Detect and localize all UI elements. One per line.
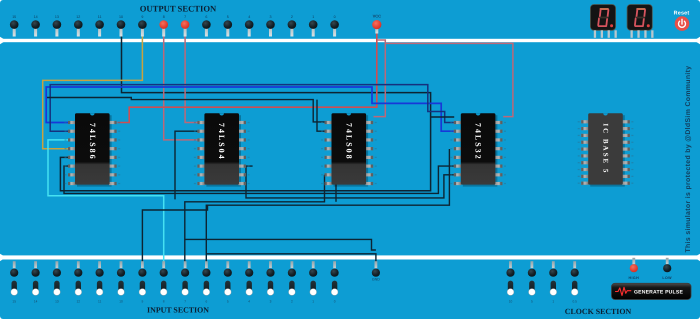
svg-text:CLOCK SECTION: CLOCK SECTION [565,307,632,316]
svg-text:1: 1 [312,300,314,304]
7-segment display DIS2 [627,5,653,38]
svg-text:GENERATE PULSE: GENERATE PULSE [634,290,684,296]
input switch 8 [160,261,168,303]
output LED pin 12 [74,15,83,37]
svg-text:VCC: VCC [373,14,382,19]
wire black bus to IC3 pin1 [47,98,325,122]
input switch 11 [96,261,104,303]
svg-text:3: 3 [270,300,272,304]
svg-text:13: 13 [55,15,59,19]
svg-text:0: 0 [334,15,336,19]
svg-text:OUTPUT SECTION: OUTPUT SECTION [140,4,217,14]
Reset power button [675,16,690,31]
svg-text:12: 12 [76,15,80,19]
wire black mesh to input pin9 [142,205,207,266]
wire pink out-pin8 to IC2 pin3 [164,33,198,140]
svg-text:INPUT SECTION: INPUT SECTION [147,306,209,315]
wire black IC3 bottom hook [335,184,337,202]
svg-text:HIGH: HIGH [629,276,640,280]
input switch 9 [138,261,146,303]
output LED pin 6 [202,15,211,37]
IC U5 IC BASE 5 [578,113,634,186]
wire black hook IC3 pin2 [317,100,325,132]
svg-text:4: 4 [248,15,250,19]
output LED pin 8 [159,15,168,37]
input switch 4 [245,261,253,303]
input switch 1 [309,261,317,303]
clock switch 5 [528,261,536,303]
svg-text:9: 9 [141,15,143,19]
svg-text:7: 7 [184,300,186,304]
output LED pin 15 [10,15,19,37]
svg-text:10: 10 [119,300,123,304]
wire cyan IC1 pin3 to input pin [48,140,164,266]
svg-text:9: 9 [142,300,144,304]
svg-text:LOW: LOW [662,276,672,280]
svg-text:15: 15 [12,300,16,304]
input switch 2 [288,261,296,303]
svg-text:74LS04: 74LS04 [217,123,226,161]
wire yellow out-pin9 to IC1 pin4 [43,33,143,149]
output LED pin 14 [31,15,40,37]
svg-text:14: 14 [34,300,38,304]
input switch 7 [181,261,189,303]
svg-text:6: 6 [206,300,208,304]
GENERATE PULSE button [612,283,692,299]
output LED pin 7 [181,15,190,37]
white separator band (bottom) [0,255,700,259]
svg-text:6: 6 [205,15,207,19]
wire pink VCC branch to IC4 right pin1 [385,43,513,116]
output LED pin 4 [245,15,254,37]
input switch 10 [117,261,125,303]
svg-text:11: 11 [98,15,102,19]
svg-text:10: 10 [119,15,123,19]
wire black gnd bus 1 [185,239,376,250]
input switch 13 [53,261,61,303]
input switch 3 [266,261,274,303]
output LED pin 1 [309,15,318,37]
svg-text:5: 5 [227,15,229,19]
input switch 6 [202,261,210,303]
svg-text:3: 3 [270,15,272,19]
wire black out-pin10 to mesh/IC1 [60,33,430,191]
white separator band (top) [0,39,700,42]
svg-text:4: 4 [248,300,250,304]
svg-text:74LS32: 74LS32 [474,123,483,161]
wire black mesh row2 [64,166,454,193]
svg-text:IC BASE 5: IC BASE 5 [602,123,610,174]
GND pin [372,261,380,281]
svg-text:15: 15 [12,15,16,19]
output LED pin 0 [330,15,339,37]
wire navy IC1 pin2 to IC4 pin1 [50,85,454,132]
svg-text:0.5: 0.5 [572,300,577,304]
svg-text:5: 5 [531,300,533,304]
output LED pin 10 [117,15,126,37]
input switch 14 [31,261,39,303]
output LED pin 5 [224,15,233,37]
wire pink VCC branch to IC3 right pin1 [374,40,386,117]
wire black hook IC4 left [431,116,455,118]
svg-text:2: 2 [291,300,293,304]
IC U1 74LS86 [65,113,121,186]
svg-text:14: 14 [34,15,38,19]
wire black mesh to input pin7 [185,175,325,266]
svg-text:12: 12 [77,300,81,304]
svg-text:74LS86: 74LS86 [88,123,97,161]
IC U2 74LS04 [194,113,250,186]
VCC pin [372,14,381,34]
wire black gnd bus 2 [206,254,376,266]
input switch 5 [224,261,232,303]
input switch 12 [74,261,82,303]
input switch 15 [10,261,18,303]
wire black mesh row3 [246,166,454,198]
svg-text:This simulator is protected by: This simulator is protected by @DldSim C… [685,65,692,252]
svg-text:8: 8 [163,300,165,304]
7-segment display DIS1 [590,5,616,38]
svg-text:0: 0 [334,300,336,304]
wire red VCC to IC1 right pin1 [118,30,377,123]
svg-text:2: 2 [291,15,293,19]
svg-text:11: 11 [98,300,102,304]
svg-text:10: 10 [509,300,513,304]
svg-text:1: 1 [552,300,554,304]
svg-text:Reset: Reset [674,11,690,17]
output LED pin 3 [266,15,275,37]
IC U4 74LS32 [450,113,506,186]
HIGH pin [629,258,640,280]
svg-text:74LS08: 74LS08 [344,123,353,161]
clock switch 0.5 [571,261,579,303]
output LED pin 9 [138,15,147,37]
svg-text:13: 13 [55,300,59,304]
clock switch 1 [549,261,557,303]
output LED pin 11 [95,15,104,37]
output LED pin 2 [288,15,297,37]
input switch 0 [331,261,339,303]
IC U3 74LS08 [321,113,377,186]
clock switch 10 [506,261,514,303]
wire black IC2 hook down [175,131,198,199]
svg-text:1: 1 [312,15,314,19]
svg-text:7: 7 [184,15,186,19]
wire pink out-pin7 to IC2 pin1 [185,33,197,123]
wire black mesh to input pin6 [206,149,449,266]
svg-text:5: 5 [227,300,229,304]
LOW pin [662,258,672,280]
svg-text:GND: GND [372,278,380,282]
wire blue IC1 pin1 to IC4 pin3 [46,87,454,131]
output LED pin 13 [53,15,62,37]
svg-text:8: 8 [163,15,165,19]
